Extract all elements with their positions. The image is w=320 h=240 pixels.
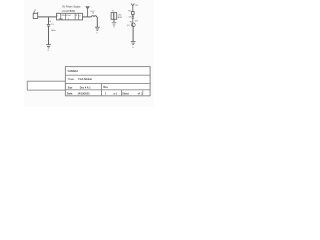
pin labels VIN VOUT bbox=[59, 15, 73, 20]
date label bbox=[67, 92, 73, 95]
wire C1 to ground bbox=[48, 26, 50, 45]
title block revision box bbox=[27, 81, 65, 90]
label U1 value bbox=[62, 11, 76, 13]
sheet cell small text bbox=[105, 92, 118, 95]
transistor Q1 bbox=[131, 21, 135, 27]
wire J1 to U1 bbox=[38, 16, 57, 18]
power arrow 12V bbox=[131, 4, 134, 12]
svg-text:BUZ: BUZ bbox=[118, 17, 123, 19]
label above bbox=[112, 10, 114, 12]
wire U1 to corner bbox=[83, 16, 92, 18]
label VCC bbox=[90, 11, 95, 13]
connector J1 bbox=[33, 11, 38, 18]
label R1 bbox=[128, 11, 131, 13]
svg-text:14/10/2023: 14/10/2023 bbox=[78, 92, 91, 95]
label Q1 bbox=[127, 25, 131, 27]
svg-text:GND: GND bbox=[59, 18, 64, 20]
svg-text:Y1: Y1 bbox=[112, 10, 114, 12]
title label bbox=[68, 79, 75, 81]
sheet background bbox=[0, 0, 159, 107]
svg-text:Rev: Rev bbox=[103, 86, 108, 89]
svg-text:5V Power Supply: 5V Power Supply bbox=[62, 5, 81, 8]
label R5 bbox=[130, 22, 133, 24]
ground bbox=[95, 27, 100, 30]
label U1 LM7805 bbox=[62, 5, 81, 8]
of label bbox=[138, 92, 144, 95]
svg-text:Size: Size bbox=[68, 87, 73, 90]
size label bbox=[68, 87, 73, 90]
svg-text:Doc # A-1: Doc # A-1 bbox=[80, 87, 92, 90]
capacitor C1 bbox=[47, 25, 51, 27]
svg-text:VIN VOUT: VIN VOUT bbox=[61, 15, 72, 17]
buzzer LS1 bbox=[111, 13, 117, 20]
node junction bbox=[48, 16, 49, 17]
wire buzzer to ground bbox=[113, 19, 115, 22]
inductor L1 bbox=[91, 16, 96, 17]
wire Q1 to ground bbox=[132, 27, 134, 42]
label D2 bbox=[135, 20, 138, 22]
LED D1 bbox=[132, 14, 134, 20]
label LS1 bbox=[118, 14, 123, 19]
ground bbox=[112, 22, 117, 25]
ground bbox=[131, 41, 136, 44]
pin 1 bbox=[57, 15, 59, 17]
rev label bbox=[103, 86, 108, 89]
wire down to C1 bbox=[48, 17, 50, 25]
label 12V bbox=[135, 5, 139, 7]
title text bbox=[78, 78, 92, 81]
sheet label bbox=[122, 92, 129, 95]
label J1 bbox=[34, 10, 37, 12]
svg-text:Fish Shoker: Fish Shoker bbox=[78, 78, 92, 81]
power flag VCC bbox=[86, 6, 90, 17]
net 0 bbox=[113, 27, 115, 29]
regulator U1 bbox=[57, 13, 83, 20]
svg-text:TITLE:: TITLE: bbox=[68, 79, 75, 81]
document number bbox=[80, 87, 92, 90]
svg-text:of 1: of 1 bbox=[138, 92, 144, 95]
plus mark bbox=[50, 21, 51, 22]
wire corner down bbox=[96, 17, 99, 27]
net 0 bbox=[48, 50, 50, 52]
pin 8 bbox=[76, 15, 78, 17]
resistor R1 bbox=[132, 12, 135, 15]
svg-text:CANADA: CANADA bbox=[68, 70, 79, 73]
svg-text:U1 LM7805C: U1 LM7805C bbox=[62, 11, 76, 13]
ground bbox=[46, 45, 51, 48]
title block table bbox=[65, 67, 150, 96]
net 0 bbox=[97, 32, 99, 34]
svg-text:Date:: Date: bbox=[67, 92, 73, 95]
label C1 bbox=[51, 24, 56, 32]
company name bbox=[68, 70, 79, 73]
net 0 bbox=[132, 47, 134, 49]
date value bbox=[78, 92, 91, 95]
svg-text:Sheet: Sheet bbox=[122, 92, 129, 95]
label L1 bbox=[92, 12, 95, 14]
pin 3 bbox=[79, 15, 81, 17]
label D1 bbox=[129, 16, 133, 18]
